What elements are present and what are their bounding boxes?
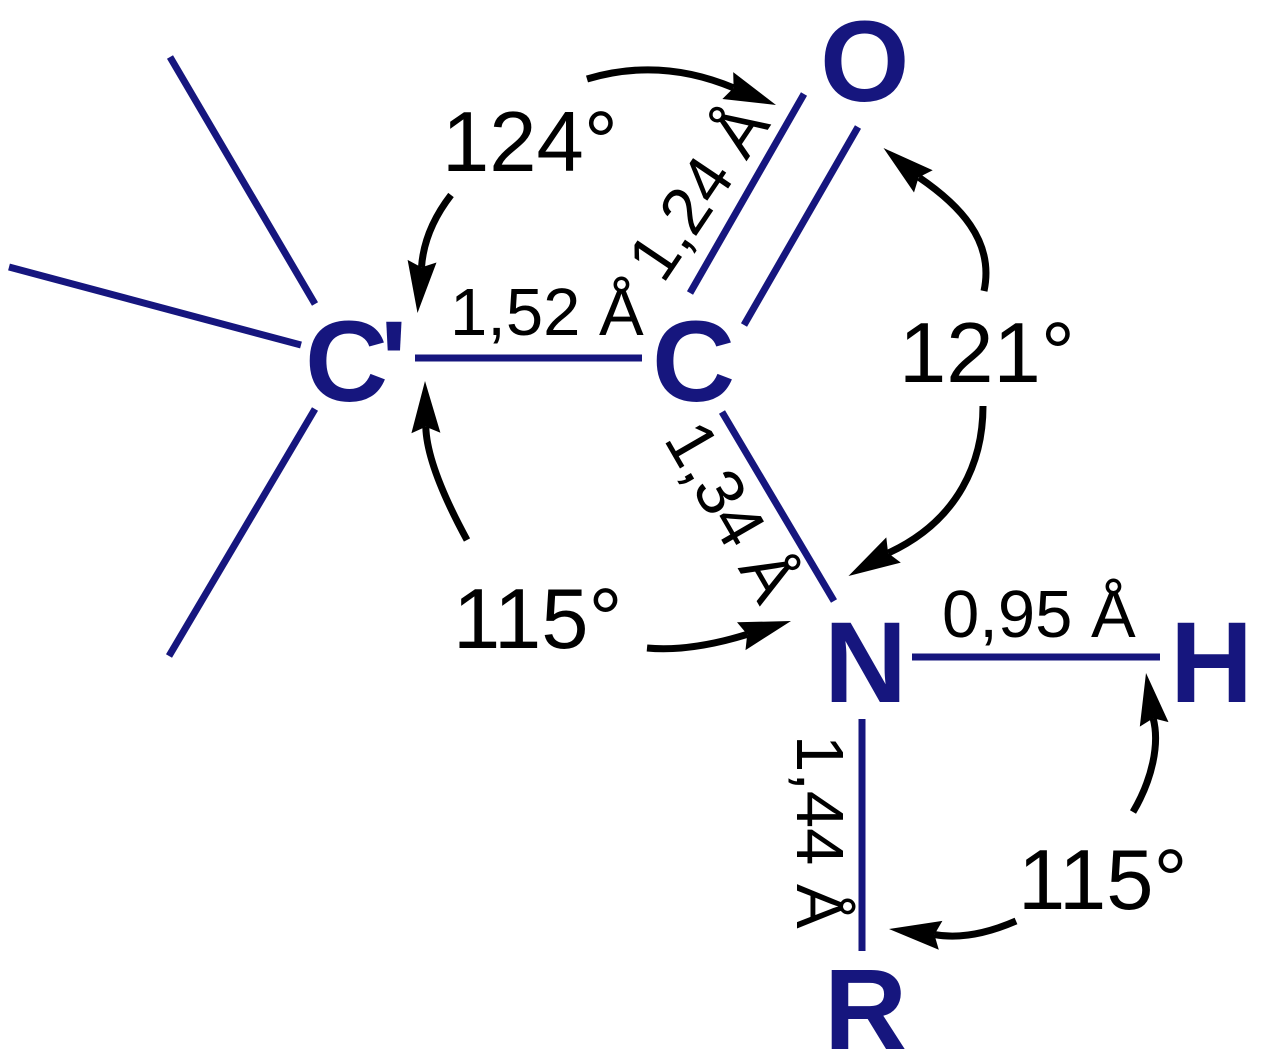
arrow 124 deg upper arc <box>587 70 776 105</box>
svg-text:121°: 121° <box>899 306 1075 401</box>
svg-text:1,44 Å: 1,44 Å <box>782 735 857 929</box>
arrow 115 deg left toward N <box>647 621 791 650</box>
svg-text:C': C' <box>305 298 407 426</box>
svg-text:0,95 Å: 0,95 Å <box>942 577 1136 652</box>
bond N-H 0.95A <box>912 654 1160 661</box>
bond N-R 1.44A <box>859 719 866 951</box>
bond C'-C single 1.52A <box>415 355 642 362</box>
svg-text:C: C <box>652 298 735 426</box>
bond C'-substituent lower-left <box>169 409 315 656</box>
svg-text:O: O <box>820 0 909 126</box>
arrow 115 deg right toward H <box>1133 673 1169 812</box>
svg-text:115°: 115° <box>1018 833 1188 928</box>
arrow 115 deg left toward C' <box>411 381 467 540</box>
arrow 124 deg lower arc <box>408 195 451 313</box>
bond C=O double line 2 <box>744 127 858 325</box>
svg-text:124°: 124° <box>442 95 618 190</box>
bond C'-substituent upper-left <box>170 57 315 304</box>
arrow 121 deg lower arc <box>849 406 984 576</box>
svg-text:N: N <box>824 599 907 727</box>
bond C=O double line 1 <box>690 94 804 293</box>
arrow 115 deg right toward R <box>889 921 1016 950</box>
svg-text:1,52 Å: 1,52 Å <box>450 275 644 350</box>
svg-text:H: H <box>1170 599 1253 727</box>
svg-text:R: R <box>824 946 907 1056</box>
bond C'-substituent left <box>9 267 301 345</box>
arrow 121 deg upper arc <box>884 148 986 291</box>
svg-text:115°: 115° <box>453 572 623 667</box>
bond C-N peptide 1.34A <box>722 412 834 601</box>
